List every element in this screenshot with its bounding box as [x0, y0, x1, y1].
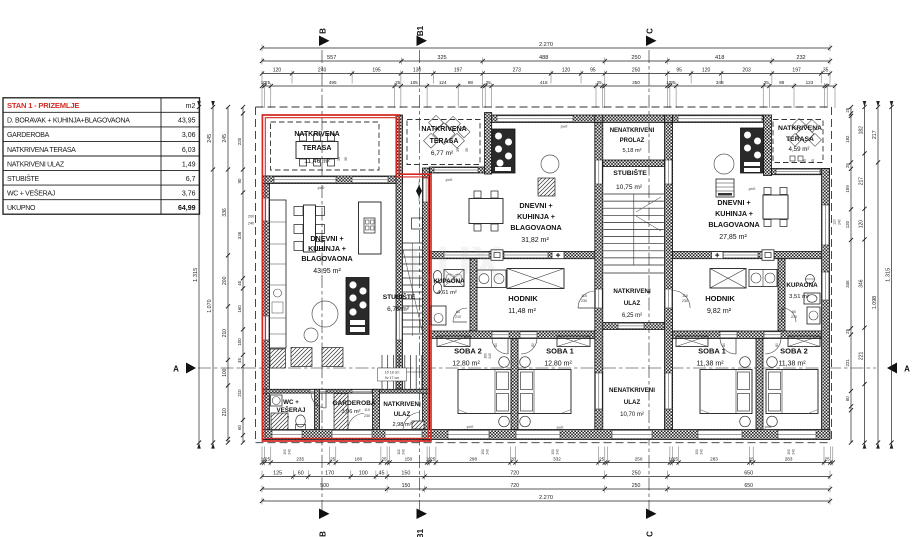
- left unit fridge dark: [270, 349, 286, 368]
- svg-text:UKUPNO: UKUPNO: [7, 205, 36, 212]
- svg-text:170: 170: [325, 471, 334, 477]
- svg-text:11,48 m²: 11,48 m²: [508, 306, 536, 315]
- dimension bottom row fine: [260, 447, 835, 466]
- svg-text:250: 250: [631, 55, 640, 61]
- svg-text:25: 25: [764, 80, 770, 85]
- svg-text:A: A: [173, 365, 179, 374]
- door arc soba2 middle: [492, 338, 508, 354]
- svg-text:WC +: WC +: [283, 399, 299, 406]
- right hodnik washer unit: [749, 270, 777, 287]
- svg-text:11,38 m²: 11,38 m²: [778, 361, 806, 368]
- svg-text:3,76: 3,76: [182, 190, 196, 197]
- svg-text:1.315: 1.315: [886, 268, 892, 282]
- svg-text:2,98 m²: 2,98 m²: [393, 422, 412, 428]
- svg-text:100: 100: [237, 338, 242, 346]
- svg-text:p±0: p±0: [446, 177, 453, 182]
- svg-text:p±0: p±0: [557, 425, 564, 430]
- wardrobe soba1 right: [676, 336, 708, 347]
- window south wc left unit: [272, 430, 302, 438]
- svg-text:25: 25: [845, 107, 850, 112]
- door wc: [310, 390, 326, 393]
- svg-text:m2: m2: [186, 101, 196, 110]
- kitchen west wall middle unit: [485, 113, 492, 175]
- svg-text:DNEVNI +: DNEVNI +: [519, 201, 552, 210]
- window soba2 right west: [665, 373, 672, 409]
- svg-text:160: 160: [237, 305, 242, 313]
- wc toilet: [296, 415, 306, 430]
- svg-text:STUBIŠTE: STUBIŠTE: [7, 174, 39, 183]
- dimension left chain small: [237, 105, 245, 445]
- window south garderoba: [332, 430, 372, 438]
- svg-text:45: 45: [379, 471, 385, 477]
- wall between left terrace and living: [262, 176, 403, 184]
- svg-text:9v 17 cm: 9v 17 cm: [385, 376, 400, 380]
- bed soba1 right: [700, 370, 752, 414]
- nightstand soba1 right top: [740, 357, 751, 368]
- left stairwell treads: [403, 243, 423, 336]
- svg-text:240: 240: [318, 68, 327, 74]
- svg-text:60: 60: [792, 310, 796, 314]
- svg-text:720: 720: [510, 483, 519, 489]
- svg-text:25: 25: [381, 457, 387, 462]
- svg-text:98: 98: [779, 80, 785, 85]
- svg-text:250: 250: [632, 471, 641, 477]
- plus box right wall: [712, 252, 724, 259]
- svg-text:150: 150: [695, 449, 699, 455]
- svg-text:1.070: 1.070: [207, 299, 213, 312]
- svg-text:6,03: 6,03: [182, 147, 196, 154]
- svg-text:250: 250: [632, 68, 641, 74]
- svg-text:325: 325: [437, 55, 446, 61]
- sliding panel living-hall middle 2: [504, 252, 548, 258]
- svg-text:SOBA 1: SOBA 1: [546, 347, 574, 356]
- red outline stan 1 outer: [262, 115, 431, 441]
- window west kitchen: [263, 198, 269, 221]
- dimension bottom row 2: [260, 471, 832, 480]
- dimension right chain small: [845, 105, 853, 445]
- bed soba2 middle: [458, 370, 511, 414]
- left unit armchair 2: [322, 348, 343, 367]
- svg-text:217: 217: [859, 177, 865, 186]
- svg-text:250: 250: [632, 483, 641, 489]
- svg-text:B1: B1: [416, 528, 425, 537]
- plus box middle wall: [552, 252, 564, 259]
- svg-text:120: 120: [845, 220, 850, 228]
- svg-text:p±0: p±0: [318, 185, 325, 190]
- wall kupaona/hodnik middle: [470, 259, 477, 331]
- svg-text:HODNIK: HODNIK: [705, 294, 735, 303]
- svg-text:NATKRIVENI: NATKRIVENI: [613, 288, 651, 295]
- wc washbasin: [271, 395, 283, 406]
- left terrace dashed boundary: [271, 122, 380, 170]
- svg-text:KUHINJA +: KUHINJA +: [715, 209, 753, 218]
- window west living: [263, 316, 269, 340]
- svg-text:217: 217: [872, 130, 878, 139]
- svg-text:150: 150: [787, 449, 791, 455]
- section marker A right: [887, 363, 910, 374]
- svg-text:159: 159: [845, 185, 850, 193]
- svg-text:25: 25: [265, 457, 271, 462]
- door soba1 middle: [520, 332, 537, 338]
- svg-text:NATKRIVENI: NATKRIVENI: [383, 401, 421, 408]
- svg-text:LUX: LUX: [407, 238, 503, 291]
- svg-text:60: 60: [845, 396, 850, 401]
- section line C vertical dashed: [648, 50, 650, 511]
- section marker A left: [173, 363, 196, 374]
- svg-text:95: 95: [590, 68, 596, 74]
- svg-text:95: 95: [676, 68, 682, 74]
- svg-text:240: 240: [488, 353, 492, 359]
- door arc right unit entry into hodnik: [673, 291, 691, 309]
- garderoba closet: [334, 394, 348, 430]
- svg-text:25: 25: [330, 457, 336, 462]
- svg-text:NATKRIVENA TERASA: NATKRIVENA TERASA: [7, 147, 76, 154]
- dimension top row fine 2: [260, 80, 837, 108]
- roof overhang dashed right: [831, 107, 833, 443]
- roof overhang dashed bottom: [256, 442, 832, 444]
- dimension left row fine: [222, 105, 230, 445]
- sliding panel living-hall middle 1: [444, 252, 489, 258]
- nightstand soba2 right top: [767, 357, 778, 368]
- window stairwell east: [423, 178, 429, 202]
- window east living right: [822, 205, 829, 245]
- svg-text:210: 210: [455, 315, 461, 319]
- svg-text:ULAZ: ULAZ: [624, 399, 641, 406]
- svg-text:6,70 m²: 6,70 m²: [387, 306, 409, 313]
- svg-text:120: 120: [859, 220, 865, 229]
- left stairwell landing box: [412, 218, 423, 229]
- svg-text:418: 418: [715, 55, 724, 61]
- svg-text:9,82 m²: 9,82 m²: [707, 306, 732, 315]
- svg-text:11,46 m²: 11,46 m²: [304, 158, 330, 165]
- wall hall/bedrooms middle: [430, 331, 595, 339]
- svg-text:35: 35: [456, 148, 460, 152]
- window north middle living: [497, 116, 573, 122]
- svg-text:NATKRIVENA: NATKRIVENA: [294, 131, 339, 138]
- svg-text:B1: B1: [416, 25, 425, 36]
- svg-text:124: 124: [439, 80, 447, 85]
- door soba2 right: [764, 332, 781, 338]
- svg-text:C: C: [646, 531, 655, 537]
- svg-text:NATKRIVENI ULAZ: NATKRIVENI ULAZ: [7, 161, 65, 168]
- middle lamp circle: [541, 155, 559, 173]
- door arc wc: [311, 393, 326, 408]
- entry door south left unit: [385, 430, 422, 438]
- svg-text:1.315: 1.315: [193, 268, 199, 282]
- wall middle living/hall: [430, 252, 595, 259]
- svg-text:35: 35: [465, 148, 469, 152]
- glazing left living north 2: [352, 177, 388, 183]
- svg-text:DNEVNI +: DNEVNI +: [717, 198, 750, 207]
- svg-text:DNEVNI +: DNEVNI +: [310, 234, 343, 243]
- door soba2 middle: [492, 332, 509, 338]
- door arc kupaona middle: [453, 308, 467, 322]
- svg-text:98: 98: [468, 80, 474, 85]
- svg-text:60: 60: [456, 310, 460, 314]
- svg-text:25: 25: [845, 328, 850, 333]
- svg-text:220: 220: [237, 137, 242, 145]
- window soba1 middle east: [595, 373, 602, 409]
- svg-text:110: 110: [682, 294, 688, 298]
- svg-text:210: 210: [222, 408, 228, 417]
- svg-text:25: 25: [825, 457, 831, 462]
- svg-text:180: 180: [354, 457, 362, 462]
- svg-text:HODNIK: HODNIK: [508, 294, 538, 303]
- svg-text:4,59 m²: 4,59 m²: [789, 146, 810, 153]
- svg-text:240: 240: [556, 449, 560, 455]
- svg-text:150: 150: [402, 483, 411, 489]
- outer wall west left unit: [262, 176, 270, 440]
- wardrobe soba1 middle: [557, 336, 590, 347]
- washing machine: [271, 413, 288, 430]
- terrace front middle unit: [430, 167, 485, 173]
- svg-text:720: 720: [510, 471, 519, 477]
- svg-text:182: 182: [845, 135, 850, 143]
- red outline stan 1 inner: [265, 118, 428, 439]
- svg-text:KUHINJA +: KUHINJA +: [308, 244, 346, 253]
- svg-text:43,95: 43,95: [178, 118, 196, 125]
- left terrace table and chairs: [296, 134, 338, 166]
- svg-text:6,25 m²: 6,25 m²: [622, 313, 642, 319]
- right terrace dashed boundary: [773, 120, 823, 163]
- window south soba2 middle: [448, 430, 489, 438]
- svg-text:125: 125: [273, 471, 282, 477]
- section marker C bottom: [646, 509, 657, 537]
- svg-text:245: 245: [207, 134, 213, 143]
- svg-text:200: 200: [248, 215, 254, 219]
- svg-text:650: 650: [744, 483, 753, 489]
- section marker B1 top: [416, 25, 427, 46]
- left unit round rug circles: [312, 301, 338, 327]
- svg-text:TERASA: TERASA: [303, 145, 332, 152]
- svg-text:240: 240: [486, 449, 490, 455]
- north pier passage east: [665, 115, 673, 123]
- window south soba1 right: [698, 430, 742, 438]
- right terrace plant diamonds: [789, 118, 822, 146]
- svg-text:6,77 m²: 6,77 m²: [431, 150, 454, 157]
- door arc kupaona right: [782, 308, 796, 322]
- svg-text:STUBIŠTE: STUBIŠTE: [613, 168, 647, 177]
- svg-text:221: 221: [845, 359, 850, 367]
- svg-text:2.270: 2.270: [539, 42, 553, 48]
- center stairs landing: [604, 272, 664, 274]
- sliding panel living-hall right 1: [723, 252, 758, 258]
- svg-text:90: 90: [237, 178, 242, 183]
- middle terrace dashed boundary: [407, 120, 480, 165]
- entry door arc left unit: [403, 413, 420, 430]
- wall garderoba/ulaz: [373, 389, 380, 429]
- svg-text:80: 80: [494, 343, 498, 347]
- svg-text:D. BORAVAK + KUHINJA+BLAGOVAON: D. BORAVAK + KUHINJA+BLAGOVAONA: [7, 118, 130, 125]
- svg-text:BLAGOVAONA: BLAGOVAONA: [708, 220, 759, 229]
- section marker B1 bottom: [416, 509, 427, 537]
- nightstand soba2 right bottom: [767, 416, 778, 427]
- svg-text:120: 120: [562, 68, 571, 74]
- svg-text:C: C: [646, 28, 655, 34]
- door living to stairwell: [397, 310, 403, 340]
- svg-text:488: 488: [539, 55, 548, 61]
- svg-text:250: 250: [635, 457, 643, 462]
- section marker B bottom: [319, 509, 330, 537]
- svg-text:45: 45: [237, 358, 242, 363]
- svg-text:500: 500: [320, 483, 329, 489]
- svg-text:336: 336: [237, 231, 242, 239]
- svg-text:35: 35: [823, 68, 829, 74]
- svg-text:110: 110: [364, 408, 370, 412]
- svg-text:12,80 m²: 12,80 m²: [544, 361, 572, 368]
- svg-text:240: 240: [288, 449, 292, 455]
- section line B1 vertical dashed: [419, 50, 421, 511]
- wardrobe soba2 middle: [437, 336, 470, 347]
- svg-text:31,82 m²: 31,82 m²: [521, 237, 549, 244]
- svg-text:TERASA: TERASA: [430, 138, 459, 145]
- outer wall east right unit: [822, 169, 830, 440]
- svg-text:35: 35: [337, 157, 341, 161]
- svg-text:60: 60: [298, 471, 304, 477]
- terrace front right unit: [772, 169, 830, 175]
- svg-text:418: 418: [540, 80, 548, 85]
- svg-text:BLAGOVAONA: BLAGOVAONA: [510, 223, 561, 232]
- svg-text:150: 150: [481, 449, 485, 455]
- svg-text:80: 80: [531, 343, 535, 347]
- svg-text:10,75 m²: 10,75 m²: [616, 184, 643, 191]
- svg-text:5,18 m²: 5,18 m²: [623, 148, 642, 154]
- svg-text:197: 197: [792, 68, 801, 74]
- svg-text:495: 495: [329, 80, 337, 85]
- svg-text:130: 130: [413, 68, 422, 74]
- dimension top total 2.270: [260, 42, 832, 51]
- svg-text:150: 150: [405, 457, 413, 462]
- center stairs treads: [604, 194, 664, 265]
- outer wall north right unit: [673, 115, 764, 123]
- svg-text:A: A: [904, 365, 910, 374]
- dimension bottom row 3: [260, 483, 832, 492]
- legend table STAN 1 - PRIZEMLJE: [3, 98, 200, 214]
- door gap center: [618, 323, 644, 329]
- svg-text:25: 25: [486, 80, 492, 85]
- roof overhang dashed top: [256, 106, 832, 108]
- right kupaona fixtures: [804, 275, 820, 325]
- section line B vertical dashed: [321, 50, 323, 511]
- svg-text:221: 221: [859, 352, 865, 361]
- svg-text:27,85 m²: 27,85 m²: [719, 234, 747, 241]
- middle hodnik closet with X: [507, 269, 564, 289]
- svg-text:650: 650: [744, 471, 753, 477]
- nightstand soba1 middle top: [520, 357, 531, 368]
- svg-text:1б 18 cm: 1б 18 cm: [385, 371, 400, 375]
- svg-text:NENATKRIVENI: NENATKRIVENI: [610, 128, 655, 134]
- door soba1 right: [720, 332, 737, 338]
- svg-text:NENATKRIVENI: NENATKRIVENI: [609, 387, 655, 394]
- dimension top row main: [260, 55, 832, 64]
- door arc soba1 middle: [521, 338, 537, 354]
- section marker C top: [646, 28, 657, 46]
- svg-text:110: 110: [581, 294, 587, 298]
- wall soba1/soba2 right: [756, 339, 763, 430]
- left unit dining table: [294, 205, 325, 252]
- wall ulaz center: [603, 323, 665, 330]
- middle kitchen counter dark: [492, 129, 515, 173]
- left unit kitchen island white: [359, 202, 382, 254]
- door garderoba: [352, 390, 372, 393]
- svg-text:150: 150: [551, 449, 555, 455]
- svg-text:240: 240: [700, 449, 704, 455]
- sink box on wall right: [762, 250, 774, 260]
- middle kupaona fixtures: [431, 270, 464, 326]
- right kitchen counter dark: [741, 128, 764, 173]
- west wall right unit: [665, 123, 673, 430]
- svg-text:1.098: 1.098: [872, 296, 878, 309]
- right lamp circle: [714, 154, 734, 174]
- dimension right total 1.315: [886, 101, 894, 449]
- svg-text:35: 35: [344, 157, 348, 161]
- dimension bottom total 2.270: [260, 495, 832, 504]
- svg-text:240: 240: [792, 449, 796, 455]
- wall right living/hall: [673, 252, 822, 259]
- wardrobe soba2 right: [788, 336, 820, 347]
- dimension top row fine 1: [260, 68, 832, 84]
- svg-text:SOBA 2: SOBA 2: [454, 347, 482, 356]
- left unit armchair 1: [291, 348, 312, 367]
- terrace sliding door middle: [434, 168, 478, 173]
- window right unit to prolaz: [665, 160, 672, 184]
- svg-text:100: 100: [359, 471, 368, 477]
- svg-text:p±0: p±0: [765, 424, 772, 429]
- svg-text:STAN 1 - PRIZEMLJE: STAN 1 - PRIZEMLJE: [7, 101, 79, 110]
- svg-text:GARDEROBA: GARDEROBA: [332, 400, 375, 407]
- svg-text:182: 182: [859, 126, 865, 135]
- svg-text:3,06: 3,06: [182, 132, 196, 139]
- svg-text:10,70 m²: 10,70 m²: [620, 412, 644, 418]
- door right unit entry: [665, 289, 672, 308]
- svg-text:283: 283: [710, 457, 718, 462]
- svg-text:STUBIŠTE: STUBIŠTE: [383, 292, 416, 301]
- nightstand soba1 middle bottom: [520, 416, 531, 427]
- right hodnik closet with X: [710, 269, 746, 289]
- nightstand soba2 middle top: [499, 357, 510, 368]
- svg-text:80: 80: [722, 343, 726, 347]
- middle entry door arc: [578, 291, 595, 308]
- svg-text:p±0: p±0: [749, 186, 756, 191]
- svg-text:25: 25: [845, 163, 850, 168]
- svg-text:3,06 m²: 3,06 m²: [342, 409, 361, 415]
- entry step hatch: [412, 421, 424, 429]
- svg-text:80: 80: [775, 343, 779, 347]
- svg-text:230: 230: [581, 299, 587, 303]
- svg-text:150: 150: [401, 471, 410, 477]
- svg-text:35: 35: [811, 159, 815, 163]
- svg-text:p±0: p±0: [467, 424, 474, 429]
- svg-text:11,38 m²: 11,38 m²: [696, 361, 724, 368]
- stairwell east wall party wall: [423, 168, 430, 441]
- svg-text:PROLAZ: PROLAZ: [620, 138, 645, 144]
- door middle unit entry: [595, 289, 602, 308]
- svg-text:KUHINJA +: KUHINJA +: [517, 212, 555, 221]
- svg-text:250: 250: [632, 80, 640, 85]
- svg-text:12,80 m²: 12,80 m²: [452, 361, 480, 368]
- svg-text:25: 25: [265, 80, 271, 85]
- svg-text:20: 20: [510, 457, 516, 462]
- svg-text:100: 100: [397, 449, 401, 455]
- wall wc/garderoba: [315, 389, 320, 429]
- right terrace stools: [790, 156, 795, 161]
- svg-text:B: B: [319, 28, 328, 34]
- window south soba1 middle: [516, 430, 560, 438]
- outer wall north middle unit: [492, 115, 595, 123]
- svg-text:2.270: 2.270: [539, 495, 553, 501]
- terrace sliding door right: [776, 169, 820, 174]
- nightstand soba2 middle bottom: [499, 416, 510, 427]
